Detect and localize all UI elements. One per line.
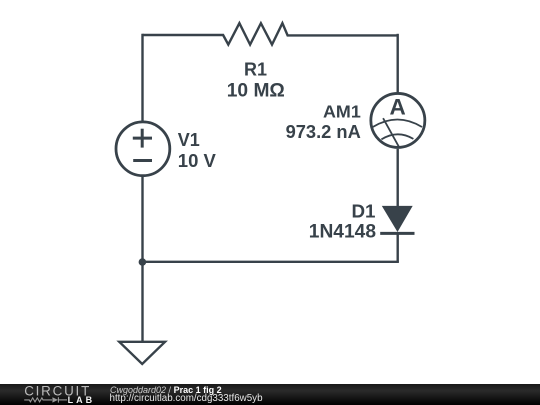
svg-text:973.2 nA: 973.2 nA <box>286 121 361 142</box>
svg-text:AM1: AM1 <box>323 102 361 122</box>
svg-text:10 V: 10 V <box>178 150 217 171</box>
svg-text:V1: V1 <box>178 130 200 150</box>
svg-text:R1: R1 <box>244 60 267 80</box>
svg-text:A: A <box>389 95 405 120</box>
svg-text:1N4148: 1N4148 <box>309 222 377 243</box>
svg-text:D1: D1 <box>351 200 375 221</box>
svg-text:10 MΩ: 10 MΩ <box>227 80 285 101</box>
svg-text:LAB: LAB <box>68 395 95 405</box>
